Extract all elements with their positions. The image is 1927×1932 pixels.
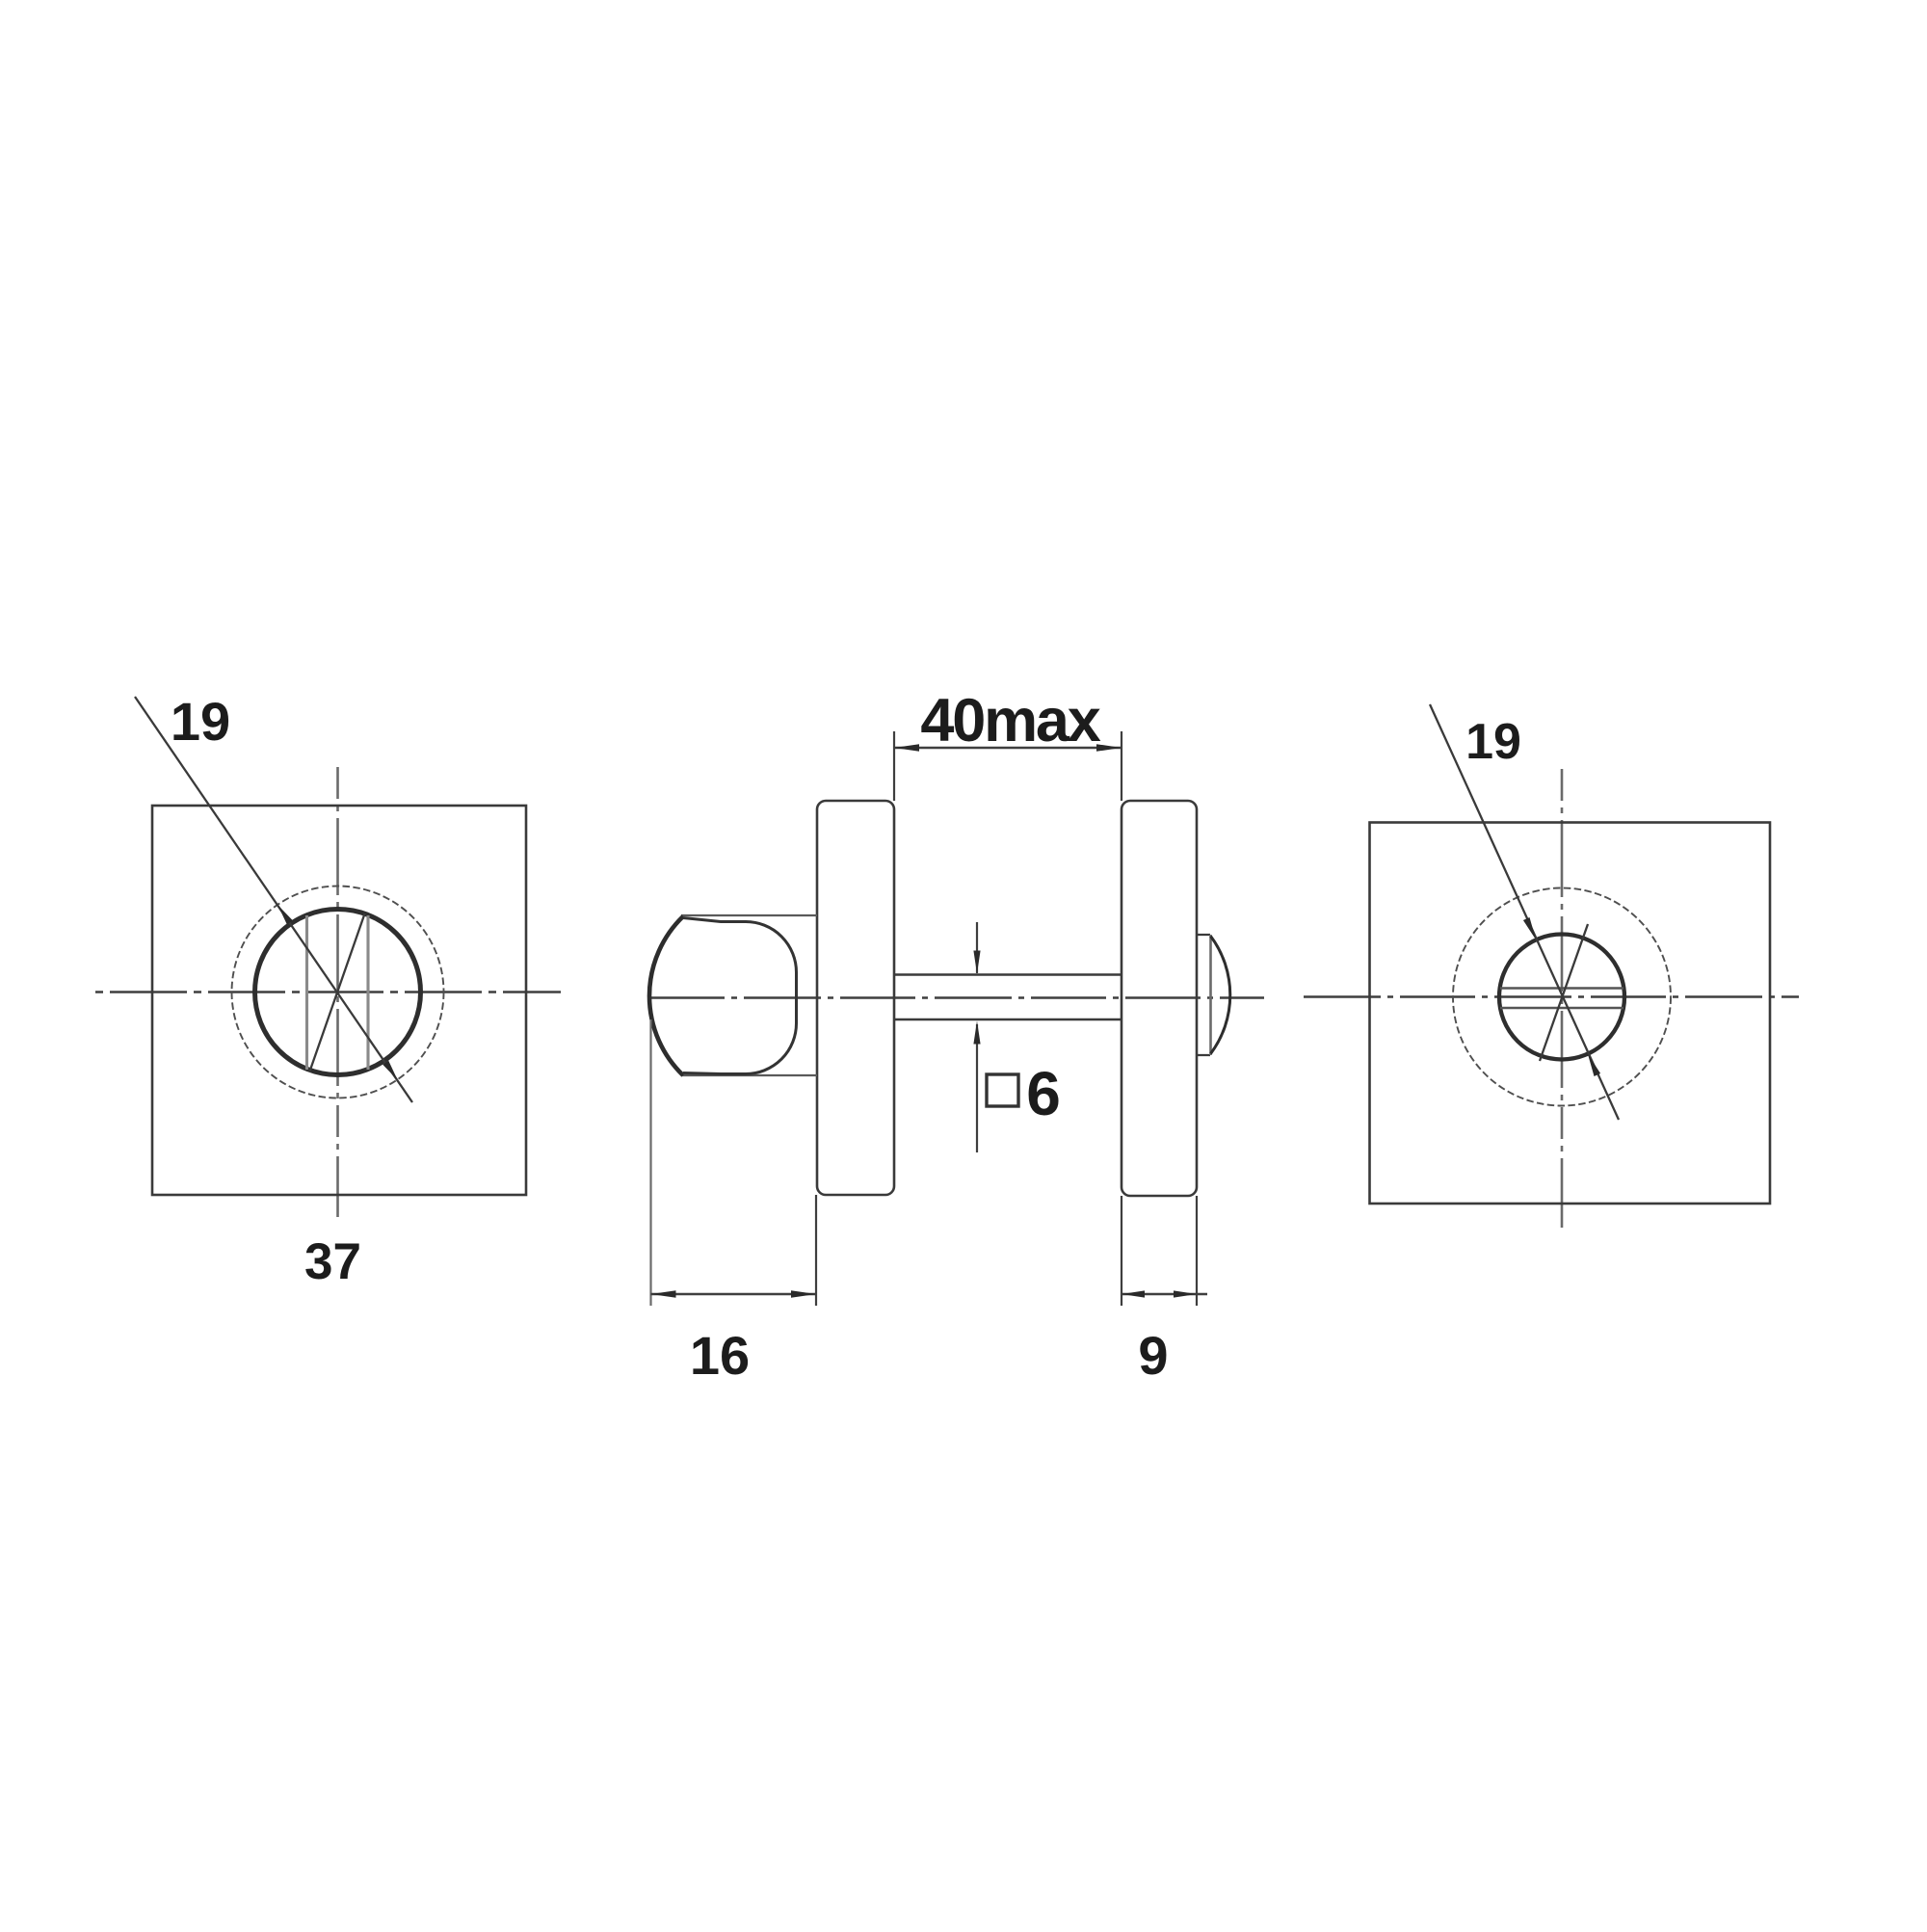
svg-text:19: 19 bbox=[1465, 714, 1521, 770]
svg-text:40max: 40max bbox=[920, 687, 1100, 754]
svg-text:9: 9 bbox=[1138, 1325, 1168, 1386]
svg-text:16: 16 bbox=[690, 1325, 750, 1386]
svg-text:19: 19 bbox=[171, 691, 230, 752]
svg-text:6: 6 bbox=[1026, 1059, 1061, 1128]
svg-text:37: 37 bbox=[304, 1233, 361, 1290]
